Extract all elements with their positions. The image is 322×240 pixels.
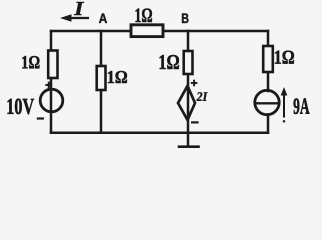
wire right rail lower: [267, 115, 270, 133]
current source I1 9A circle with bar: [255, 90, 279, 114]
ground: [179, 133, 199, 147]
resistor R1 1ohm left rail: [48, 51, 57, 79]
voltage source V1 10V circle: [40, 89, 63, 112]
resistor R5 1ohm right rail: [263, 46, 273, 72]
wire right rail upper: [267, 31, 270, 91]
resistor R2 1ohm top between A and B: [131, 25, 163, 37]
wire middle branch at node A: [100, 31, 103, 133]
wire top-right segment (resistor R2 to corner): [163, 30, 268, 33]
wire bottom: [51, 131, 268, 134]
resistor R3 1ohm middle branch: [97, 66, 106, 90]
value label 1ohm of R2: [136, 8, 152, 22]
ink speck below 9A arrow: [283, 120, 286, 123]
minus sign of V1: [37, 117, 44, 119]
node A label: [99, 14, 107, 23]
wire top-left segment (corner to resistor R2): [51, 30, 131, 33]
plus sign of dependent source: [191, 80, 198, 87]
plus sign of V1: [45, 82, 52, 89]
current arrow I pointing left: [60, 14, 89, 21]
node B label: [182, 14, 188, 23]
value label 2I: [196, 92, 207, 100]
value label 1ohm of R3: [108, 71, 127, 83]
wire left rail: [50, 31, 53, 133]
arrow of current source 9A pointing up: [281, 87, 288, 118]
label I: [74, 2, 84, 15]
value label 1ohm of R1: [22, 56, 39, 68]
resistor R4 1ohm branch B: [184, 51, 193, 74]
value label 1ohm of R5: [275, 51, 294, 64]
dependent current source 2I diamond: [178, 86, 195, 120]
value label 10V: [8, 99, 34, 114]
value label 1ohm of R4: [160, 55, 179, 69]
wire branch at node B: [187, 31, 190, 133]
value label 9A: [294, 98, 310, 114]
minus sign of dependent source: [191, 121, 199, 123]
